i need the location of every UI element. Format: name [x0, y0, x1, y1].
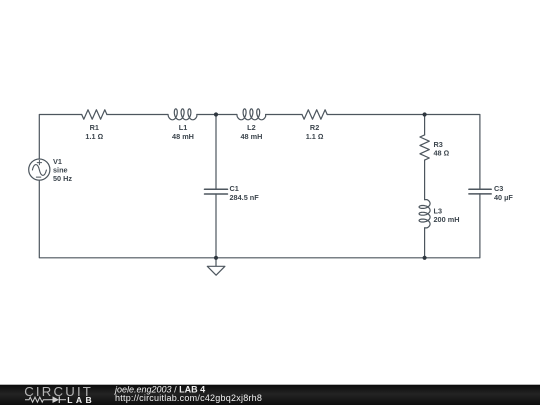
inductor L1: [168, 109, 197, 120]
logo diode: [53, 396, 60, 403]
wire top-left from source to R1: [39, 115, 81, 160]
ground symbol: [207, 266, 225, 275]
svg-text:40 µF: 40 µF: [494, 193, 513, 202]
footer bar: [0, 385, 540, 405]
resistor R1: [82, 110, 107, 119]
node B junction dot: [423, 112, 427, 116]
wire R2 to top-right corner: [327, 115, 480, 190]
wire node A down to C1: [215, 115, 217, 190]
svg-text:50 Hz: 50 Hz: [53, 174, 72, 183]
capacitor C3 plates: [469, 188, 491, 190]
wire R1 to L1: [107, 114, 168, 116]
wire node B down to R3: [424, 115, 426, 135]
svg-text:LAB: LAB: [67, 395, 95, 405]
wire L1 to L2 through node A: [197, 114, 237, 116]
wire C3 to bottom-right corner: [425, 194, 480, 258]
inductor L3: [419, 200, 430, 228]
ground wire stub: [215, 258, 217, 267]
svg-text:R1: R1: [90, 123, 99, 132]
svg-text:48 mH: 48 mH: [240, 132, 262, 141]
V1 plus sign: [37, 160, 41, 164]
svg-text:C3: C3: [494, 184, 503, 193]
wire L3 to bottom: [424, 228, 426, 258]
svg-text:284.5 nF: 284.5 nF: [230, 193, 260, 202]
svg-text:http://circuitlab.com/c42gbq2x: http://circuitlab.com/c42gbq2xj8rh8: [115, 393, 262, 403]
svg-text:C1: C1: [230, 184, 239, 193]
node B bottom junction dot: [423, 256, 427, 260]
svg-text:48 mH: 48 mH: [172, 132, 194, 141]
capacitor C1 plates: [205, 188, 228, 190]
node A junction dot: [214, 112, 218, 116]
svg-text:R2: R2: [310, 123, 319, 132]
svg-text:1.1 Ω: 1.1 Ω: [85, 132, 103, 141]
wire L2 to R2: [266, 114, 302, 116]
svg-text:48 Ω: 48 Ω: [434, 149, 450, 158]
svg-text:1.1 Ω: 1.1 Ω: [306, 132, 324, 141]
voltage source V1: [29, 159, 50, 180]
svg-text:200 mH: 200 mH: [434, 215, 460, 224]
wire R3 to L3: [424, 160, 426, 200]
inductor L2: [237, 109, 266, 120]
resistor R3: [420, 135, 429, 160]
logo resistor-diode glyph: [25, 397, 66, 402]
svg-text:L1: L1: [179, 123, 188, 132]
resistor R2: [302, 110, 327, 119]
wire bottom from ground node to bottom-left corner: [39, 180, 216, 258]
ground node junction dot: [214, 256, 218, 260]
V1 sine waveform: [32, 165, 46, 176]
wire C1 to bottom: [215, 194, 217, 258]
wire bottom from node B to ground node: [216, 257, 425, 259]
svg-text:L2: L2: [247, 123, 256, 132]
V1 minus sign: [36, 176, 41, 178]
